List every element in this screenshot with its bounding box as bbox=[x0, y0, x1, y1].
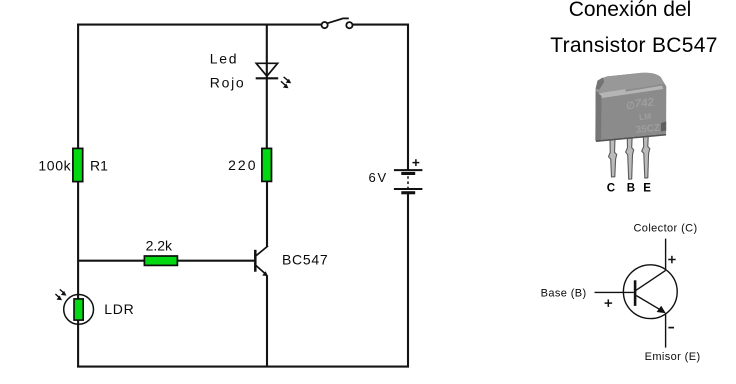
wire: right vertical rail lower (battery - to bottom rail) bbox=[407, 194, 409, 368]
wire: collector lead of symbol bbox=[665, 239, 667, 271]
transistor symbol circle bbox=[623, 265, 677, 319]
transistor symbol base bar bbox=[634, 280, 637, 306]
svg-text:B: B bbox=[627, 183, 636, 195]
minus sign at emitter bbox=[668, 327, 674, 329]
pin leg E bbox=[642, 136, 650, 178]
plus sign at base bbox=[605, 299, 613, 307]
package body bbox=[595, 73, 666, 140]
wire: base lead of symbol bbox=[595, 291, 634, 293]
svg-text:Colector (C): Colector (C) bbox=[633, 223, 697, 235]
transistor symbol emitter stroke with arrow bbox=[636, 296, 665, 314]
svg-text:Transistor BC547: Transistor BC547 bbox=[550, 34, 717, 57]
switch S1 bbox=[322, 18, 353, 28]
LED D1 (Led Rojo) bbox=[256, 63, 292, 88]
transistor package photo (TO-92) bbox=[595, 73, 666, 179]
svg-text:2.2k: 2.2k bbox=[146, 238, 173, 254]
svg-text:∅: ∅ bbox=[626, 100, 636, 112]
wire: collector vertical (220 resistor to transistor) bbox=[266, 181, 268, 246]
resistor R1 100k bbox=[73, 148, 83, 181]
svg-text:Base (B): Base (B) bbox=[541, 288, 587, 300]
svg-text:Rojo: Rojo bbox=[210, 75, 246, 91]
pin leg B bbox=[626, 138, 634, 179]
pin leg C bbox=[609, 139, 617, 177]
svg-text:Led: Led bbox=[210, 51, 238, 67]
resistor 220 bbox=[262, 148, 272, 181]
wire: right vertical rail upper (to battery +) bbox=[407, 24, 409, 170]
svg-text:742: 742 bbox=[634, 97, 655, 111]
wire: LED branch from top rail to 220 resistor bbox=[266, 25, 268, 149]
svg-text:Conexión del: Conexión del bbox=[569, 0, 692, 21]
svg-text:BC547: BC547 bbox=[282, 252, 328, 268]
wire: left vertical rail bbox=[77, 24, 79, 368]
svg-text:C: C bbox=[607, 183, 616, 195]
wire: top rail right segment bbox=[352, 24, 409, 26]
svg-text:220: 220 bbox=[228, 157, 257, 173]
svg-text:LDR: LDR bbox=[104, 301, 134, 317]
svg-text:35CZ: 35CZ bbox=[635, 123, 660, 136]
svg-text:R1: R1 bbox=[90, 158, 108, 174]
svg-text:Emisor (E): Emisor (E) bbox=[645, 351, 701, 363]
wire: base wire (left rail through 2.2k to transistor base) bbox=[78, 260, 254, 262]
transistor symbol collector stroke bbox=[636, 271, 665, 291]
transistor Q1 BC547 bbox=[255, 246, 268, 276]
wire: bottom rail bbox=[77, 366, 409, 368]
svg-text:LM: LM bbox=[639, 111, 652, 122]
svg-text:6V: 6V bbox=[369, 170, 389, 185]
resistor 2.2k bbox=[144, 256, 177, 265]
battery B1 6V bbox=[394, 159, 423, 194]
plus sign at collector bbox=[668, 256, 675, 263]
wire: emitter lead of symbol bbox=[665, 313, 667, 348]
svg-text:E: E bbox=[643, 183, 652, 195]
LDR bbox=[55, 289, 93, 324]
wire: emitter vertical (transistor to bottom rail) bbox=[266, 275, 268, 367]
svg-text:100k: 100k bbox=[38, 158, 71, 174]
wire: top rail left segment bbox=[77, 24, 322, 26]
